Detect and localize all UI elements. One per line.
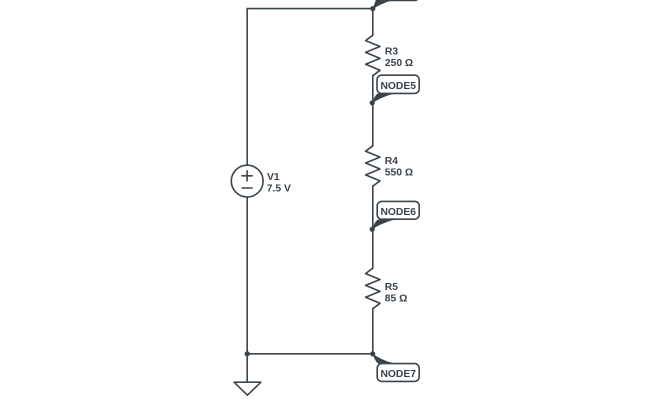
svg-text:R3: R3 — [385, 46, 398, 57]
svg-text:NODE6: NODE6 — [380, 207, 416, 218]
svg-text:NODE5: NODE5 — [380, 81, 416, 92]
svg-text:R5: R5 — [385, 282, 398, 293]
svg-text:7.5 V: 7.5 V — [267, 184, 291, 195]
svg-text:R4: R4 — [385, 156, 398, 167]
svg-text:550 Ω: 550 Ω — [385, 168, 413, 179]
svg-text:250 Ω: 250 Ω — [385, 58, 413, 69]
svg-text:85 Ω: 85 Ω — [385, 293, 408, 304]
svg-text:NODE7: NODE7 — [380, 369, 416, 380]
svg-text:V1: V1 — [267, 172, 280, 183]
